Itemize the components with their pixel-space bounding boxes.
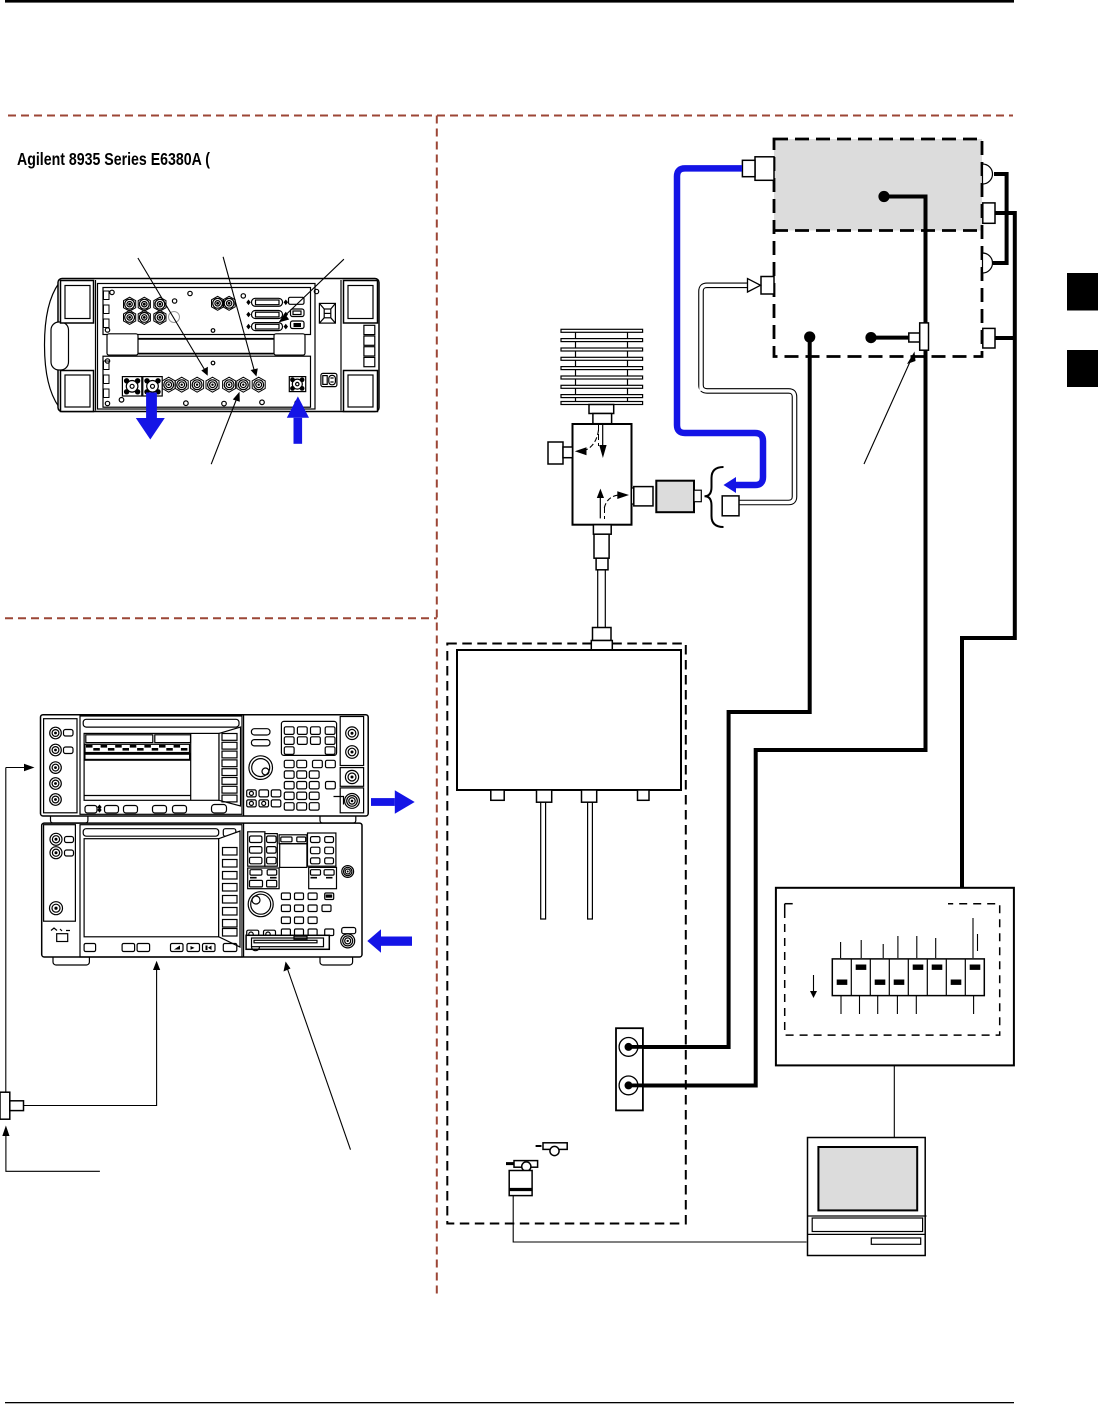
svg-text:Agilent 8935 Series E6380A (: Agilent 8935 Series E6380A ( [17,149,210,169]
